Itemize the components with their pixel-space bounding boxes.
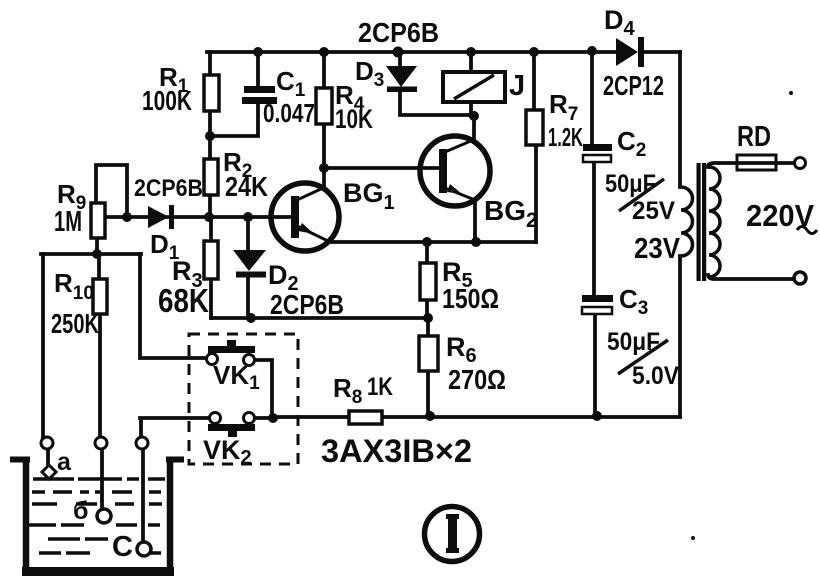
svg-text:23V: 23V xyxy=(634,233,681,265)
wire electrode a stub xyxy=(46,449,50,465)
wire C2 C3 branch xyxy=(592,51,595,417)
switch VK2 xyxy=(208,413,255,438)
svg-text:0.047: 0.047 xyxy=(263,98,315,128)
svg-text:C2: C2 xyxy=(617,126,646,161)
wire BG2 emitter drop xyxy=(473,200,477,242)
diode D2 xyxy=(233,250,266,278)
capacitor C1 xyxy=(242,86,277,104)
resistor R5 xyxy=(420,263,436,300)
water dashes xyxy=(27,479,165,553)
wire bottom rail xyxy=(273,415,680,419)
wire R5 leads xyxy=(425,242,429,318)
wire R3 leads xyxy=(209,217,213,318)
svg-text:б: б xyxy=(73,497,88,525)
wire R9 loop xyxy=(96,165,127,217)
wire VK1 to VK2 link xyxy=(254,360,273,418)
resistor R4 xyxy=(316,88,332,124)
svg-text:VK2: VK2 xyxy=(203,435,252,469)
figure number I xyxy=(425,507,480,562)
svg-text:50μF: 50μF xyxy=(605,170,656,198)
svg-text:3AX3IB×2: 3AX3IB×2 xyxy=(321,433,472,469)
resistor R7 xyxy=(526,110,543,145)
svg-text:R6: R6 xyxy=(446,332,477,367)
wire transformer primary bottom lead xyxy=(708,275,793,279)
svg-text:270Ω: 270Ω xyxy=(448,364,506,395)
svg-text:J: J xyxy=(509,70,525,102)
wire R2 leads xyxy=(208,136,212,217)
terminal top right xyxy=(795,158,806,169)
label C3 rating slash xyxy=(618,340,668,374)
wire right rail upper xyxy=(678,52,682,187)
diode D1 xyxy=(148,205,174,229)
svg-text:100K: 100K xyxy=(142,85,192,116)
svg-text:RD: RD xyxy=(737,121,771,153)
transistor BG2 xyxy=(420,136,490,206)
svg-text:24K: 24K xyxy=(225,171,268,202)
dashed enclosure box xyxy=(189,334,298,464)
wire C1 leads xyxy=(210,52,258,136)
capacitor C2 xyxy=(583,144,612,162)
wire BG1 collector riser xyxy=(322,168,326,187)
fuse RD xyxy=(737,155,776,170)
wire R1 leads xyxy=(208,52,212,136)
wire D2 leads xyxy=(246,217,250,318)
electrode a tip xyxy=(42,465,56,479)
svg-text:1K: 1K xyxy=(367,373,393,401)
electrode b tip xyxy=(97,509,111,523)
electrode c tip xyxy=(137,542,151,556)
wire top rail xyxy=(207,50,680,54)
resistor R2 xyxy=(204,159,218,195)
speck xyxy=(789,91,793,95)
transformer secondary winding 23V xyxy=(681,187,693,256)
connector c xyxy=(136,437,148,449)
resistor R8 xyxy=(349,411,382,424)
wire electrode c stub xyxy=(141,449,145,542)
wire BG2 collector riser xyxy=(472,116,476,142)
switch VK1 xyxy=(207,340,256,366)
wire lower bus xyxy=(211,316,428,320)
svg-text:2CP6B: 2CP6B xyxy=(270,289,344,320)
svg-text:10K: 10K xyxy=(335,104,373,134)
svg-text:BG2: BG2 xyxy=(484,195,538,232)
resistor R9 xyxy=(91,203,105,238)
node dots xyxy=(92,46,602,423)
relay J xyxy=(443,72,505,102)
wire R9 bottom lead xyxy=(95,238,99,254)
wire right rail lower xyxy=(678,256,682,417)
svg-text:2CP12: 2CP12 xyxy=(603,70,664,101)
resistor R3 xyxy=(204,241,218,279)
wire relay leads xyxy=(469,52,473,116)
svg-text:2CP6B: 2CP6B xyxy=(358,17,439,48)
connector b xyxy=(95,437,107,449)
svg-text:D3: D3 xyxy=(355,56,384,91)
svg-text:C: C xyxy=(112,531,133,563)
wire left cross xyxy=(41,252,141,256)
svg-text:1.2K: 1.2K xyxy=(548,122,583,152)
capacitor C3 xyxy=(582,295,613,314)
terminal bottom right xyxy=(794,272,806,284)
svg-text:25V: 25V xyxy=(632,197,675,225)
wire R7 leads xyxy=(534,52,536,242)
connector a xyxy=(41,437,53,449)
label AC squiggle xyxy=(797,227,817,234)
wire right leg to VK1 xyxy=(140,254,207,358)
svg-text:5.0V: 5.0V xyxy=(632,362,679,390)
svg-text:68K: 68K xyxy=(158,282,209,319)
svg-text:R7: R7 xyxy=(549,89,578,125)
svg-text:C1: C1 xyxy=(276,66,306,101)
resistor R1 xyxy=(204,75,219,111)
label C2 rating slash xyxy=(619,179,664,211)
transistor BG1 xyxy=(271,183,339,251)
svg-text:R10: R10 xyxy=(54,268,94,304)
svg-text:150Ω: 150Ω xyxy=(442,283,499,314)
wire BG1 to BG2 base xyxy=(324,166,438,170)
wire electrode b stub xyxy=(100,449,104,509)
svg-text:R8: R8 xyxy=(333,373,362,408)
diode D3 xyxy=(386,66,417,92)
wire transformer primary top lead xyxy=(708,163,794,167)
svg-text:BG1: BG1 xyxy=(343,178,395,214)
transformer core xyxy=(697,163,707,281)
svg-text:2CP6B: 2CP6B xyxy=(134,175,203,202)
transformer primary winding 220V xyxy=(709,167,720,277)
svg-text:C3: C3 xyxy=(619,284,648,319)
svg-text:D4: D4 xyxy=(604,5,636,40)
wire R10 top lead xyxy=(97,254,101,279)
wire electrode a drop xyxy=(41,254,45,437)
svg-text:a: a xyxy=(57,448,72,476)
water tank xyxy=(10,457,184,575)
svg-text:250K: 250K xyxy=(51,308,99,339)
resistor R10 xyxy=(93,279,107,314)
wire R10 bottom lead / electrode b drop xyxy=(98,314,102,437)
speck xyxy=(691,536,695,540)
wire R4 leads xyxy=(322,52,326,168)
diode D4 xyxy=(616,37,644,67)
wire base bus xyxy=(105,215,292,219)
resistor R6 xyxy=(419,336,438,371)
wire VK2 left / electrode c drop xyxy=(140,418,210,437)
wire R6 leads xyxy=(426,318,430,417)
svg-text:1M: 1M xyxy=(54,206,82,238)
wire emitter rail xyxy=(331,240,536,244)
wire D3 leads xyxy=(400,52,474,115)
